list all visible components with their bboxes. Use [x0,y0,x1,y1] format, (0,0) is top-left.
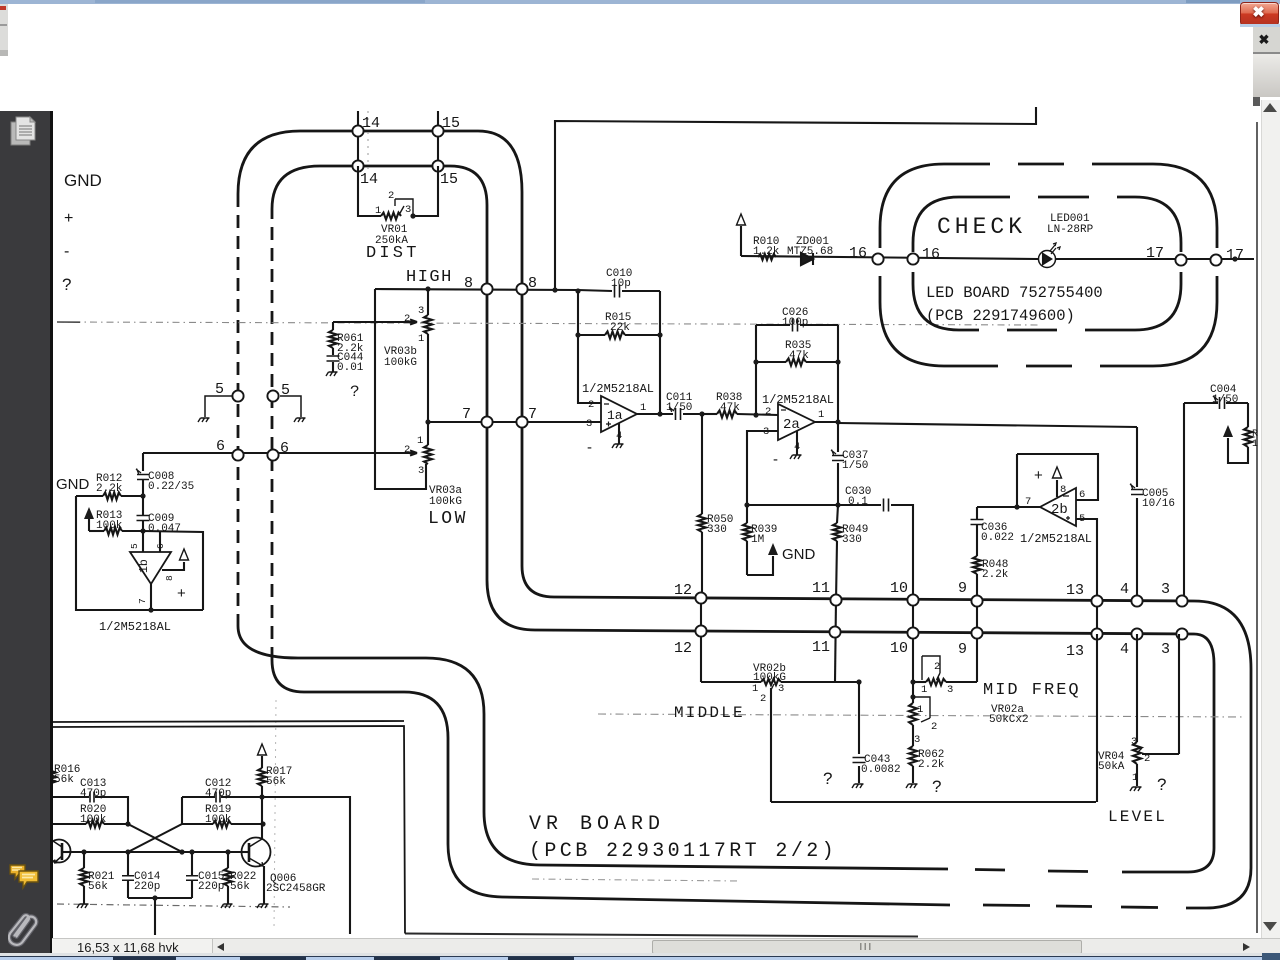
node 10 circles [912,597,914,684]
crease dotted vertical x368 [367,104,369,172]
svg-text:1: 1 [818,409,824,421]
svg-text:2a: 2a [783,417,800,433]
node 9 circles [976,601,978,682]
sidebar paperclip icon [8,910,40,948]
wire rail 7 y422 [428,421,601,423]
svg-text:12: 12 [674,582,692,599]
wire: left-bottom inner vertical x448 up to y692 rail [272,660,448,844]
svg-text:2: 2 [1144,753,1150,765]
svg-text:6: 6 [155,543,166,549]
svg-text:3: 3 [947,684,953,696]
svg-text:1: 1 [640,402,646,414]
svg-text:2: 2 [934,661,940,673]
svg-text:1: 1 [752,683,758,695]
svg-text:4: 4 [616,430,622,442]
svg-text:12: 12 [674,640,692,657]
potentiometer VR02b 100kG [701,681,761,683]
node 13 circles [1096,601,1098,634]
power arrow R010 [737,214,746,225]
svg-text:4: 4 [1120,581,1129,598]
svg-text:0.022: 0.022 [981,532,1014,544]
sidebar comments icon [7,862,41,892]
wire HIGH rail y289 [375,289,578,290]
svg-text:6: 6 [280,440,289,457]
svg-text:13: 13 [1066,582,1084,599]
node 12 circles [700,599,702,682]
wire rail 16/17 [741,256,1254,259]
svg-text:GND: GND [782,546,816,563]
wire pin3 of 2a down [747,431,778,505]
node 4 circles [1131,595,1142,606]
svg-text:15: 15 [440,171,458,188]
svg-text:2: 2 [760,693,766,705]
resistor R010 1.2k [758,254,776,260]
svg-text:0.22/35: 0.22/35 [148,481,194,493]
svg-text:2: 2 [404,313,410,325]
left mini slider column [0,4,8,56]
wire 2a output to right [815,421,838,423]
wire C010 box verticals [578,291,660,414]
svg-text:+: + [1034,467,1043,484]
svg-text:15: 15 [442,115,460,132]
svg-text:CHECK: CHECK [937,214,1026,240]
svg-text:0.0082: 0.0082 [861,764,901,776]
ground below C044 [326,372,338,376]
crease dash-dot line y905 [57,904,290,907]
LED LED001 symbol [1039,251,1056,268]
wire GND hook of R039 [747,556,773,575]
svg-text:(PCB 2291749600): (PCB 2291749600) [926,307,1075,325]
node 6 circles [232,449,243,460]
svg-text:1.2k: 1.2k [753,246,780,258]
wire Q006 emitter to ground [263,866,265,904]
svg-text:2: 2 [931,721,937,733]
svg-text:330: 330 [707,524,727,536]
board outline inner dashed rounded rect [913,197,1181,330]
svg-text:(PCB 22930117RT 2/2): (PCB 22930117RT 2/2) [529,840,837,863]
crease dash-dot line y323 [57,322,1040,325]
svg-text:10: 10 [890,580,908,597]
svg-text:17: 17 [1226,247,1244,264]
svg-text:1: 1 [375,205,381,217]
wire: right outer vertical x1250 and bottom arc [1186,669,1251,908]
wire 15 down to VR01 [413,166,438,216]
scan page bottom edge line [405,934,918,937]
wire Q006 collector up and top rail [262,797,350,934]
svg-text:1: 1 [418,333,424,345]
node 15 stub [437,111,439,161]
svg-text:56k: 56k [266,776,286,788]
svg-text:?: ? [62,275,71,294]
svg-text:8: 8 [528,275,537,292]
svg-text:1M: 1M [751,534,764,546]
svg-text:3: 3 [418,465,424,477]
svg-text:2: 2 [388,190,394,202]
svg-text:16: 16 [849,245,867,262]
right gray toolbar column [1253,27,1280,52]
wire cross coupling diagonals [128,824,182,852]
capacitor C009 0.047 [137,516,150,521]
wire 14 down to VR01 [358,166,381,216]
svg-text:MTZ5.68: MTZ5.68 [787,246,833,258]
node 3 circles [1176,595,1187,606]
svg-text:LEVEL: LEVEL [1108,808,1167,826]
crease dotted vertical x275 [274,700,276,930]
svg-text:17: 17 [1146,245,1164,262]
potentiometer VR02a section top (horizontal) [913,681,926,683]
svg-text:7: 7 [462,406,471,423]
resistor R039 1M [743,523,751,541]
resistor pullup at right edge [1247,403,1249,427]
resistor R062 2.2k [909,746,917,766]
svg-text:LED BOARD 752755400: LED BOARD 752755400 [926,284,1103,302]
svg-text:8: 8 [164,575,175,581]
wire pin8 to power arrow [1056,480,1058,497]
svg-text:470p: 470p [205,788,231,800]
node 14 stub [357,111,359,161]
svg-text:?: ? [350,383,360,401]
wire oscillator base rail y852 [70,851,243,853]
crease dash-dot line y880 [532,879,740,881]
wire: bottom lower rail (dashed right part) [983,905,1158,908]
wire VR03b wiper from R061 [333,320,417,325]
svg-text:2b: 2b [1051,502,1068,518]
svg-text:100kG: 100kG [429,496,462,508]
svg-text:3: 3 [1161,581,1170,598]
capacitor C036 0.022 [976,507,978,556]
svg-text:50kA: 50kA [1098,761,1125,773]
wire: bottom upper rail (dashed right part) [975,870,1088,872]
capacitor C043 0.0082 [853,758,866,763]
wire: vertical bus x522 down to row1 [522,192,554,597]
svg-text:8: 8 [1060,484,1066,496]
svg-text:1: 1 [417,435,423,447]
wire 2a output long rail to x1137 [838,423,1137,427]
sidebar pages icon [8,114,42,148]
crease dash-dot line y715 [598,714,1245,717]
svg-text:11: 11 [812,580,830,597]
svg-text:2.2k: 2.2k [918,759,945,771]
svg-text:56k: 56k [88,881,108,893]
wire pin7 output of 2b [977,506,1040,508]
section divider double lines y722 and box edge [52,721,404,722]
svg-text:1b: 1b [138,559,151,573]
svg-text:1: 1 [1252,439,1258,450]
svg-text:11: 11 [812,639,830,656]
red close button [1240,2,1279,26]
svg-text:2: 2 [765,406,771,418]
wire: connector row1 y597-601 across to right arc [554,597,1251,669]
svg-text:100p: 100p [782,317,808,329]
svg-text:1/2M5218AL: 1/2M5218AL [99,620,171,634]
svg-text:3: 3 [1131,736,1137,748]
wire VR03a wiper from rail 6 [143,451,417,456]
svg-text:7: 7 [137,598,148,604]
svg-text:2: 2 [588,399,594,411]
potentiometer VR03a lower half [427,422,429,445]
svg-text:5: 5 [129,543,140,549]
svg-text:3: 3 [914,734,920,746]
top window blue strip [0,0,1280,4]
resistor R048 2.2k [973,556,981,574]
svg-text:10: 10 [890,640,908,657]
svg-text:MIDDLE: MIDDLE [674,704,745,722]
svg-text:1/50: 1/50 [842,460,868,472]
svg-text:DIST: DIST [366,244,420,263]
op-amp U1b triangle (points down) [130,552,171,584]
svg-text:2.2k: 2.2k [982,569,1009,581]
wire: top-left outer arc and top rail y131 [238,131,522,194]
svg-text:13: 13 [1066,643,1084,660]
resistor R061 2.2k [332,322,334,330]
wire HIGH loop left leg down to VR03a foot [375,289,426,489]
wire pin5 into 1b [142,531,144,552]
wire pin6 into 1b [159,532,161,552]
svg-text:6: 6 [1079,489,1085,501]
board outline outer dashed rounded rect [880,164,1217,366]
wire pin4 + ground [796,431,798,455]
svg-text:-: - [64,243,69,260]
wire VR04 wiper to x1182 [1142,634,1179,754]
svg-text:3: 3 [778,683,784,695]
power arrow R013 [84,507,94,519]
svg-text:1: 1 [921,684,927,696]
potentiometer VR03b upper half [427,289,429,315]
svg-text:0.1: 0.1 [848,496,868,508]
svg-text:10/16: 10/16 [1142,498,1175,510]
resistor R049 330 [833,523,841,541]
capacitor C008 0.22/35 electrolytic [137,475,149,480]
svg-text:56k: 56k [54,774,74,786]
toolbar white area [0,4,1280,107]
svg-text:+: + [177,585,186,602]
capacitor C037 1/50 electrolytic [837,422,839,505]
wire C014/C015 bottom tie with stub [128,898,192,935]
svg-text:1/2M5218AL: 1/2M5218AL [762,393,834,407]
wire box left/bottom around 1b [76,496,203,610]
svg-text:16: 16 [922,246,940,263]
svg-text:50kCx2: 50kCx2 [989,714,1029,726]
wire pin5 down to rail 13 [1076,519,1097,601]
svg-text:220p: 220p [198,881,224,893]
resistor R050 330 [701,415,703,514]
transistor Q005 (partial, left) [48,840,71,863]
svg-text:3: 3 [586,418,592,430]
wire: right inner vertical x1231 and bottom arc [1122,664,1214,872]
svg-text:6: 6 [216,438,225,455]
svg-text:4: 4 [1120,641,1129,658]
svg-text:VR BOARD: VR BOARD [529,813,665,836]
svg-text:220p: 220p [134,881,160,893]
wire from C009 node to right leg [143,531,203,610]
op-amp U2b triangle (points left) [1040,488,1076,526]
svg-text:14: 14 [360,171,378,188]
wire pin4 + ground [618,423,620,444]
wire 2b feedback box [1017,454,1098,507]
zener ZD001 MTZ5.68 [801,253,813,265]
wire VR02b wiper down to box bottom [770,688,772,802]
svg-text:-: - [773,451,778,468]
resistor R012 2.2k [76,495,103,497]
svg-text:7: 7 [528,406,537,423]
svg-text:5: 5 [215,381,224,398]
bottom status bar [52,938,1280,954]
wire C004 column down [1183,403,1185,601]
scan page right edge line [1256,122,1258,933]
op-amp U1a triangle [601,396,637,432]
svg-text:3: 3 [1161,641,1170,658]
svg-text:LN-28RP: LN-28RP [1047,224,1094,236]
wire: shield bus loop, dashed vertical left-outer x238 [238,131,1251,908]
wire pin8 to power arrow [162,562,184,570]
svg-text:1: 1 [917,704,923,716]
transistor Q006 2SC2458GR [242,838,271,867]
svg-text:8: 8 [464,275,473,292]
svg-text:1/2M5218AL: 1/2M5218AL [582,382,654,396]
wire: left-bottom outer vertical x484 up to y658 rail [238,626,484,812]
svg-text:?: ? [823,769,832,788]
svg-text:?: ? [1157,775,1166,794]
wire C026 box verticals [756,325,838,422]
svg-text:56k: 56k [230,881,250,893]
svg-text:1/2M5218AL: 1/2M5218AL [1020,532,1092,546]
svg-text:3: 3 [405,204,411,216]
svg-text:100kG: 100kG [384,357,417,369]
node 5 with ground hooks [205,396,232,417]
svg-text:7: 7 [1025,496,1031,508]
svg-text:+: + [64,210,73,227]
horizontal scrollbar thumb [652,940,1082,954]
svg-text:0.047: 0.047 [148,523,181,535]
svg-text:GND: GND [64,171,102,190]
bottom taskbar sliver [0,953,1280,956]
potentiometer VR01 250kA [381,213,401,220]
svg-text:GND: GND [56,476,90,493]
svg-text:2SC2458GR: 2SC2458GR [266,883,326,895]
svg-text:MID FREQ: MID FREQ [983,681,1081,700]
capacitor C044 0.01 [332,348,334,355]
svg-text:?: ? [932,777,941,796]
svg-text:5: 5 [281,382,290,399]
svg-text:LOW: LOW [428,509,468,529]
wire 6-rail corner to C008 [142,453,144,471]
wire 1a output [637,413,660,415]
left sidebar [0,111,50,957]
wire: connector row2 y630-634 across to right arc [535,630,1214,664]
vertical scrollbar [1261,100,1280,938]
wire C043 branch [856,679,861,684]
svg-text:3: 3 [418,305,424,317]
wire: dashed vertical left-inner x272 [271,209,274,660]
capacitor C005 10/16 electrolytic [1136,427,1138,601]
svg-text:14: 14 [362,115,380,132]
svg-text:0.01: 0.01 [337,362,364,374]
wire x913 column to pots [910,679,915,684]
op-amp U2a triangle [778,404,815,440]
wire: top-left inner arc and rail y166 [272,166,487,209]
svg-text:1: 1 [1132,772,1138,784]
potentiometer VR04 50kA [1136,634,1138,742]
svg-text:330: 330 [842,534,862,546]
svg-text:2: 2 [404,444,410,456]
svg-text:9: 9 [958,580,967,597]
wire pin7 output [150,584,152,610]
wire: vertical bus x487 down to row2 [487,205,535,630]
svg-text:4: 4 [794,441,800,453]
node 11 circles [835,600,836,682]
wire top long feedback line y121 [555,107,1036,290]
wire mid box bottom rail [771,634,1097,802]
svg-text:-: - [587,439,592,456]
blue strip under close button [1240,24,1280,27]
potentiometer VR02a section bottom (vertical) [910,694,915,699]
svg-text:HIGH: HIGH [406,268,453,287]
svg-text:1a: 1a [607,408,623,423]
svg-text:9: 9 [958,641,967,658]
